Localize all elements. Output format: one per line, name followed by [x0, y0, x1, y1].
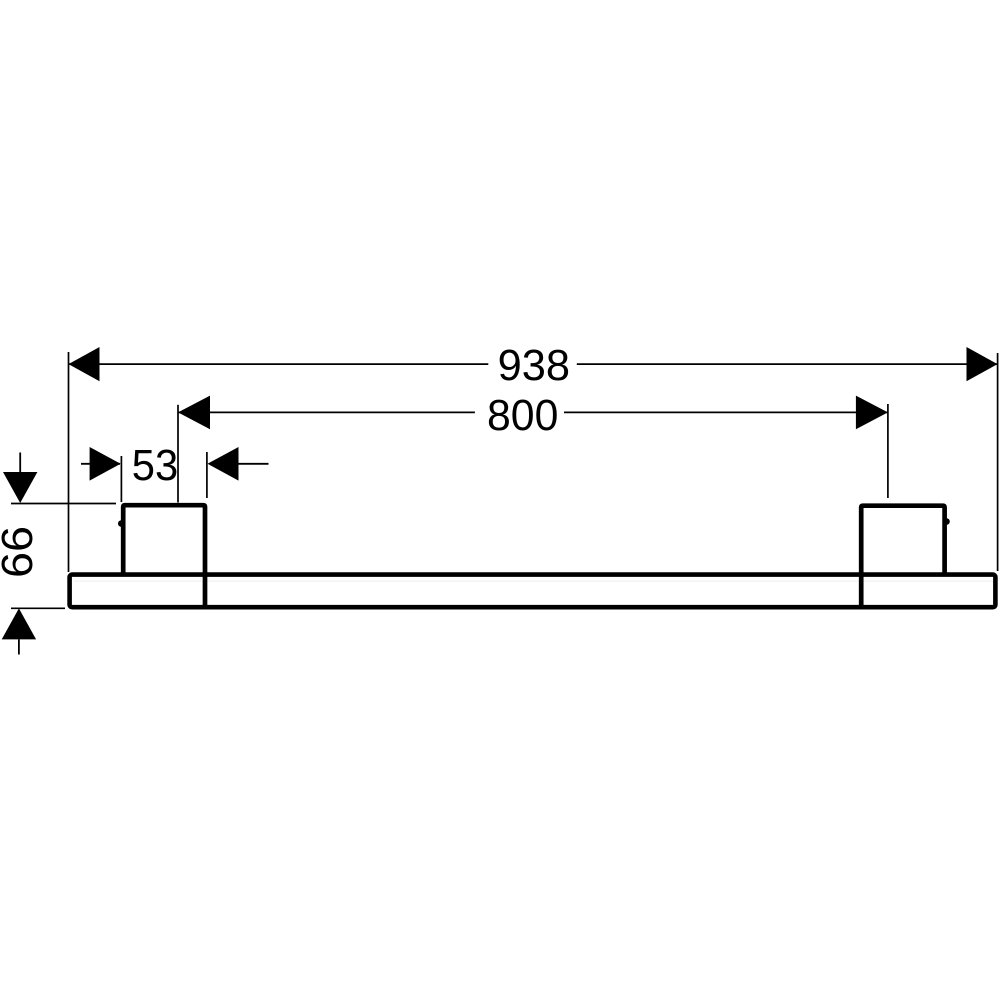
dim 938: left extension line [68, 352, 70, 572]
left mounting block [123, 505, 205, 608]
dim 53: right tail line [238, 463, 269, 465]
dim 938: line right segment [577, 363, 998, 365]
svg-text:66: 66 [0, 526, 42, 578]
right block screw bump [943, 518, 950, 525]
dim 66: bottom extension line [11, 607, 65, 609]
svg-text:800: 800 [487, 392, 558, 440]
dim 938: right arrow [967, 347, 998, 381]
left block screw bump [118, 520, 125, 527]
dim 938: right extension line [997, 353, 999, 571]
dim 66: top arrow leader [19, 453, 21, 473]
dim 800: right arrow [856, 396, 888, 430]
dim 66: bottom arrow leader [18, 639, 20, 654]
dim 53: left arrow pointing right [90, 447, 121, 481]
dim 66: top arrow pointing down [3, 472, 37, 503]
svg-text:938: 938 [498, 342, 570, 390]
dim 53: right arrow pointing left [208, 447, 239, 481]
dim 800: line right segment [564, 411, 888, 413]
svg-text:53: 53 [132, 442, 178, 490]
dim 800: left arrow [178, 396, 210, 430]
dim 800: left extension line [177, 405, 179, 503]
dim 66: bottom arrow pointing up [2, 608, 36, 639]
dim 800: right extension line [887, 404, 889, 498]
dim 66: top extension line [11, 503, 116, 505]
dim 938: left arrow [69, 347, 100, 381]
grab bar body [70, 575, 996, 608]
dim 53: left tick [120, 456, 122, 502]
dim 938: line left segment [69, 363, 489, 365]
dim 53: right tick [206, 452, 208, 498]
bar seam line [74, 580, 993, 582]
dim 53: left tail line [81, 463, 120, 465]
dim 800: line left segment [178, 411, 475, 413]
right mounting block [861, 506, 944, 608]
